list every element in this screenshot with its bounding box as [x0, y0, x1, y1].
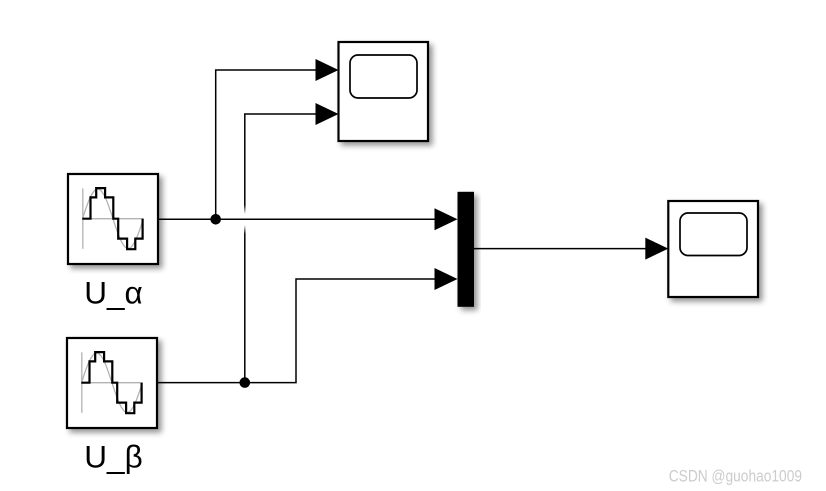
wire branch from node B up to Scope input 2 (with crossing gap) [244, 234, 246, 383]
svg-text:CSDN @guohao1009: CSDN @guohao1009 [669, 467, 802, 486]
U_beta icon [81, 352, 142, 413]
source block U_alpha body [68, 174, 158, 264]
U_alpha icon [82, 188, 143, 249]
arrowhead into Scope1 input [645, 238, 668, 260]
node B junction dot [240, 377, 251, 388]
scope1 screen [680, 213, 747, 256]
arrowhead into Mux input 2 [435, 268, 458, 290]
arrowhead into Scope input 1 [316, 59, 339, 81]
scope screen [350, 55, 417, 98]
source block U_beta body [67, 338, 157, 428]
scope1 block (right) body [668, 201, 758, 297]
svg-text:U_α: U_α [84, 275, 142, 311]
node A junction dot [210, 214, 221, 225]
wire U_beta output to Mux input 2 [158, 279, 435, 383]
mux block [458, 192, 475, 307]
wire Mux output to Scope1 input [474, 248, 646, 250]
arrowhead into Mux input 1 [435, 208, 458, 230]
svg-text:U_β: U_β [84, 439, 142, 475]
wire U_alpha output to Mux input 1 [158, 218, 435, 220]
wire branch from node A up to Scope input 1 [216, 70, 316, 219]
scope block (2-input) body [339, 42, 429, 141]
arrowhead into Scope input 2 [316, 103, 339, 125]
